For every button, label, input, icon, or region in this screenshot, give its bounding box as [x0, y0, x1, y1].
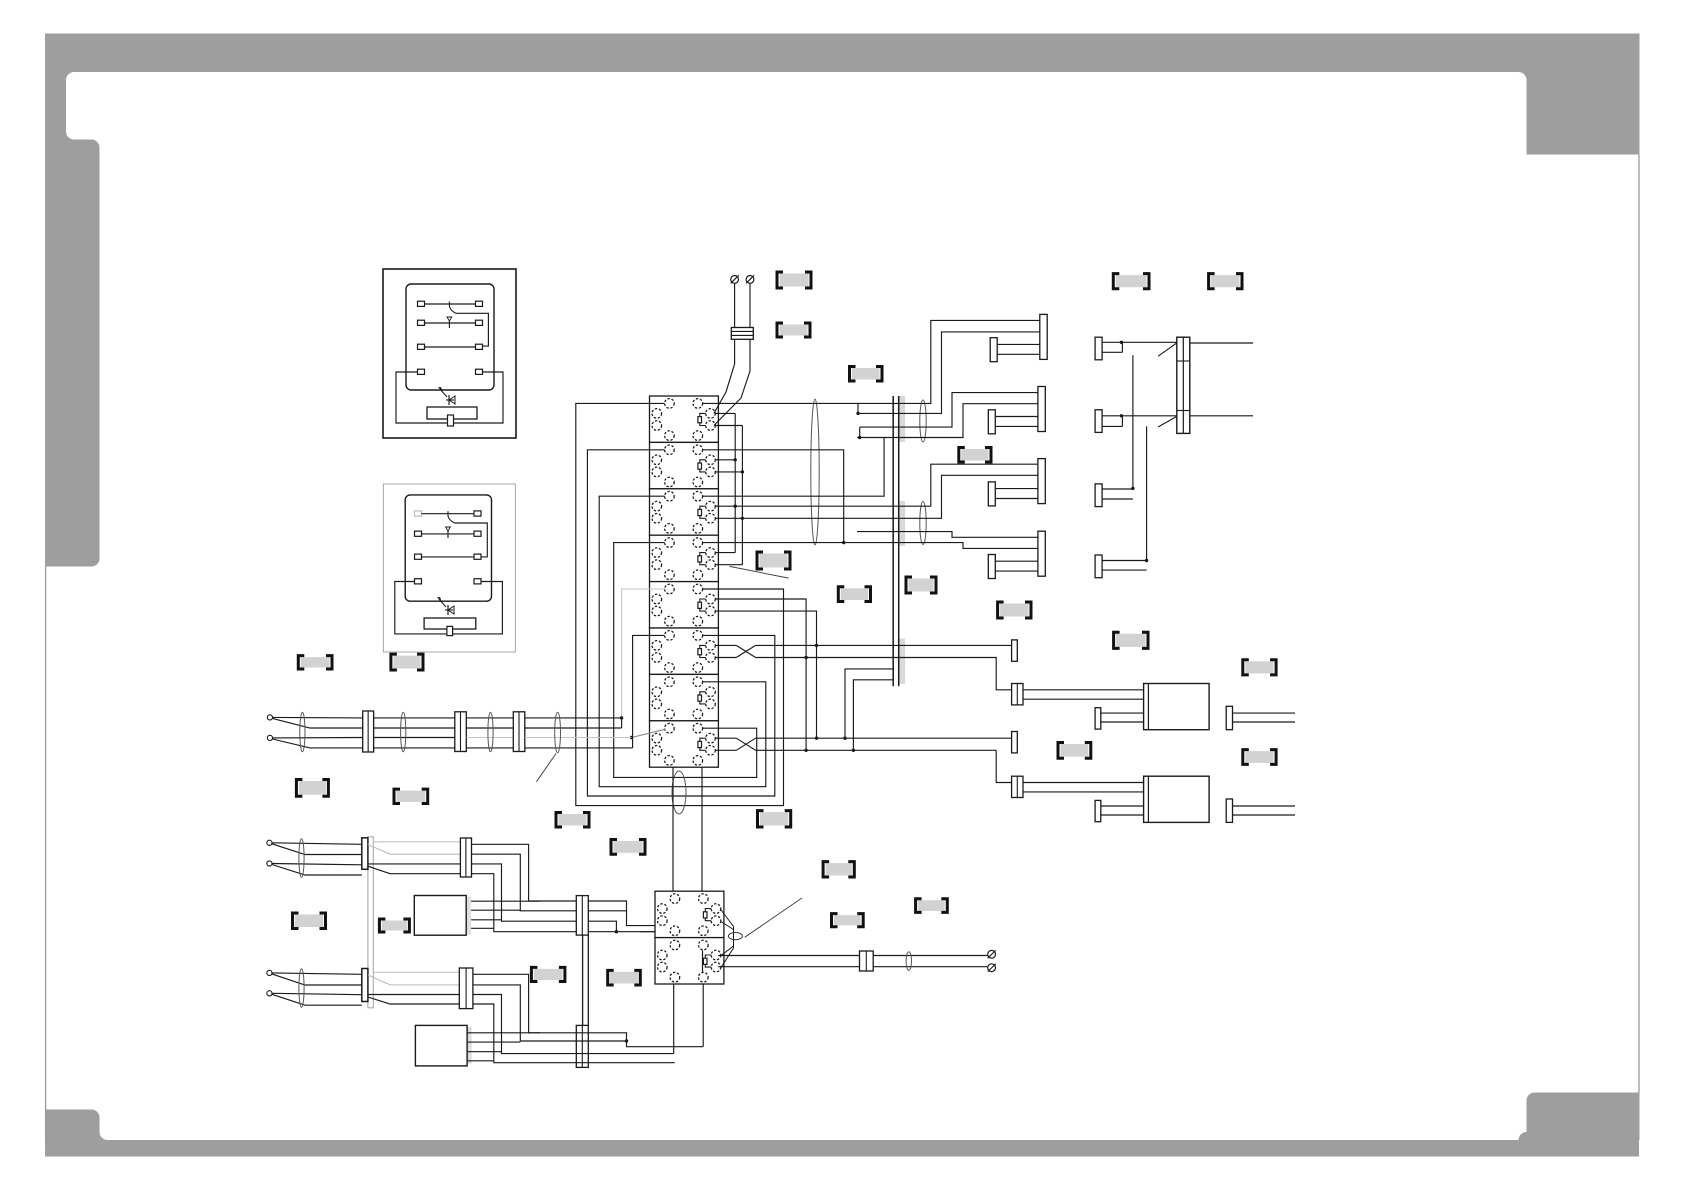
relay K2 contact row 3: [422, 556, 475, 558]
terminal strip TB1 section 2 jumper component: [700, 460, 706, 472]
connector P3 plug: [988, 482, 995, 506]
relay K1 contact pads: [418, 301, 425, 306]
cable BC to phi: [873, 955, 988, 957]
loom ellipse R2: [299, 969, 304, 1008]
relay K1 coil: [427, 407, 477, 419]
wire riser J4: [1146, 426, 1148, 560]
label T7: [909, 579, 934, 592]
wire sec6 X cross: [736, 645, 755, 657]
relay K2 coil loop: [395, 582, 503, 634]
module box B1: [466, 897, 471, 935]
plug PL1: [1144, 684, 1210, 730]
wire motif4 feed B: [899, 543, 1038, 549]
pin J3: [1095, 484, 1102, 507]
loom ellipse right mid: [920, 502, 926, 545]
wire riser 845 to header: [845, 669, 893, 738]
terminal strip TB1 section 8 jumper component: [700, 738, 706, 750]
page frame left bar: [45, 34, 100, 567]
label T14: [1245, 751, 1273, 763]
loom ellipse below strip: [672, 771, 686, 814]
wire hdr link 427-437: [859, 427, 861, 437]
page frame thin left rule: [45, 567, 47, 1141]
wire bus U1 (sec4-left to sec8-right): [614, 543, 757, 778]
relay K2 contact pads: [415, 511, 422, 516]
relay K1 contact row 2: [425, 322, 476, 324]
harness R1 span1: [373, 841, 460, 843]
wire sec5 circA drop: [715, 599, 806, 750]
terminal strip TB1 section 1 body: [650, 396, 719, 442]
TB2 switch slant: [640, 931, 655, 933]
wire right bus A (sec1-4 circles): [734, 413, 736, 552]
wire bus U3 (sec2-left to sec6-right): [587, 450, 774, 796]
loom ellipse bottom: [906, 952, 911, 971]
terminal phi-1: [731, 276, 739, 284]
wire phi-1 to sec1: [714, 339, 735, 413]
connector P2 cable: [995, 416, 1038, 418]
connector bar LB1: [362, 838, 368, 870]
terminal strip TB1 section 2 terminals: [665, 445, 675, 455]
loom ellipse M2: [401, 712, 406, 752]
harness R1 out: [472, 844, 700, 931]
terminal strip TB1 section 4 body: [650, 535, 719, 581]
pin J4: [1095, 555, 1102, 578]
cable G2c out: [1233, 805, 1296, 807]
wire TB2 bottom left drop: [673, 984, 675, 1053]
relay K2 contact row 1: [422, 513, 475, 515]
wire sec8 X cross: [736, 738, 755, 750]
wire bus U4 (sec1-left to sec5-right): [576, 403, 784, 805]
connector P1 plug: [990, 338, 997, 362]
wire riser 853 to header: [853, 680, 893, 751]
terminal strip TB1 section 5 body: [650, 582, 719, 628]
label T4: [961, 449, 988, 461]
TB2 right loop: [721, 910, 734, 927]
label T15: [301, 657, 330, 667]
terminal strip TB1 section 3 body: [650, 489, 719, 535]
loom ellipse right top: [920, 400, 926, 442]
page frame bottom band: [45, 1140, 1639, 1157]
wire motif3 feed A: [899, 464, 1038, 506]
module B1 pin wires: [471, 900, 540, 902]
callout line loom M4: [537, 754, 557, 782]
relay K1 contact row 3: [425, 346, 476, 348]
wire loop branch: [844, 438, 884, 497]
ring terminal R1b: [267, 861, 272, 866]
ring terminal M2: [267, 735, 272, 740]
label T11: [1116, 634, 1145, 647]
wire hdr line 437: [857, 437, 899, 439]
wire sec8 lineA: [715, 737, 736, 739]
cable G2b: [1101, 805, 1144, 807]
label T20: [614, 841, 643, 853]
wire hdr link 403-414: [857, 403, 859, 413]
relay K1 switch lever: [448, 302, 450, 307]
terminal block TB2 section 1 terminals: [670, 894, 680, 904]
inline connector MC1: [367, 713, 374, 753]
harness M wires from rings: [272, 716, 362, 719]
transit bar T1: [576, 896, 588, 936]
pin G2c: [1226, 799, 1232, 822]
cable G1 to plug: [1023, 689, 1144, 691]
wire sec2-sec3 loop: [703, 450, 844, 496]
relay box K1 inner body: [406, 284, 494, 390]
junction gray drop / harness line1: [620, 716, 623, 719]
terminal strip TB1 section 5 jumper component: [700, 599, 706, 611]
cable G1c out: [1233, 712, 1296, 714]
transit bar T2: [576, 1025, 588, 1067]
terminal strip TB1 section 3 terminals: [665, 491, 675, 501]
label T17: [299, 781, 326, 795]
wire motif2 feed B: [899, 404, 1038, 438]
inline connector BC: [860, 951, 874, 971]
inline connector R2C2: [459, 969, 463, 1008]
terminal block TB2 section 2 terminals: [670, 940, 680, 950]
terminal phi-4: [988, 964, 996, 972]
junction right bus B sec3: [741, 517, 744, 520]
ring terminal R2b: [267, 991, 272, 996]
terminal strip TB1 section 5 terminals: [665, 584, 675, 594]
label T1: [780, 274, 809, 287]
terminal phi-3: [988, 950, 996, 958]
terminal phi-2: [746, 276, 754, 284]
junction R2 line2: [625, 1039, 628, 1042]
inline connector MC3: [513, 712, 525, 752]
junction right bus A sec3: [734, 505, 737, 508]
connector P1 receptacle: [1040, 314, 1047, 359]
loom ellipse R1: [299, 839, 304, 878]
wire sec5 circB drop: [715, 611, 816, 738]
ring terminal M1: [267, 715, 272, 720]
cable G1b: [1101, 712, 1144, 714]
terminal strip TB1 section 6 body: [650, 628, 719, 674]
wire harness line2 hook: [621, 718, 623, 728]
wire right bus B (sec1-4 circles): [741, 426, 743, 565]
loom ellipse M3: [488, 712, 493, 752]
wire phi-2 to sec1: [714, 339, 750, 425]
wire TB2 bottom right drop: [702, 984, 704, 1046]
wire J1 stub: [1102, 351, 1122, 353]
callout strip fuse: [730, 566, 789, 578]
label T12: [1245, 661, 1273, 673]
relay K2 switch lever: [447, 511, 449, 516]
relay K1 coil diode: [446, 399, 454, 401]
wire phi-1 drop: [734, 283, 736, 327]
label T6: [841, 588, 868, 600]
junction sec5B-sec8A: [815, 737, 818, 740]
terminal strip TB1 section 4 terminals: [665, 538, 675, 548]
label T2: [780, 325, 808, 336]
module B2 pin wires: [467, 1032, 540, 1034]
connector P4 plug: [988, 555, 995, 579]
page frame bottom-left block: [45, 1110, 100, 1141]
label T18: [397, 791, 426, 802]
terminal strip TB1 section 6 terminals: [665, 631, 675, 641]
wire motif1 feed A: [899, 320, 1040, 403]
label T27: [534, 969, 563, 980]
wire sec8 lineB: [715, 749, 736, 751]
harness R2 wires from rings: [272, 973, 362, 974]
page frame thin right rule: [1638, 155, 1640, 1093]
loom ellipse M4: [555, 712, 561, 752]
ring terminal R2a: [267, 970, 272, 975]
pin J2: [1095, 410, 1102, 433]
relay K2 changeover link: [455, 523, 488, 557]
terminal strip TB1 section 6 jumper component: [700, 645, 706, 657]
wire sec6 lineA: [715, 644, 736, 646]
relay K2 coil: [424, 618, 476, 629]
page frame top band: [45, 34, 1639, 73]
harness M span1: [374, 717, 455, 719]
wire G2 inline feed: [996, 750, 1011, 782]
pin G1c: [1226, 706, 1232, 729]
terminal block TB2 section 1 body: [655, 891, 724, 937]
relay K2 coil terminal: [447, 626, 453, 635]
pin G1: [1012, 640, 1018, 661]
wire J4 pair: [1102, 560, 1147, 562]
connector bar LB2: [362, 969, 368, 1002]
pin G2b: [1095, 800, 1101, 821]
pin G2: [1012, 732, 1018, 753]
relay K2 contact row 2: [422, 533, 475, 535]
wire bus U2 (sec3-left to sec7-right): [599, 496, 766, 787]
callout TB2: [745, 898, 802, 937]
wire sec1 top to header: [703, 402, 899, 404]
relay K1 changeover link: [456, 313, 488, 346]
label T24: [834, 915, 861, 925]
wire J1 to ladder: [1102, 341, 1177, 343]
plug PL2: [1144, 776, 1210, 822]
label T9: [1116, 275, 1147, 287]
module box B2: [467, 1027, 472, 1064]
wire strip to block right: [701, 767, 703, 891]
wire sec5-left gray drop: [622, 589, 665, 718]
wire header to G1 inline: [899, 658, 1012, 690]
wire ladder out top: [1190, 342, 1253, 344]
inline connector G2: [1012, 776, 1023, 797]
terminal block TB2 section 2 jumper component: [705, 955, 711, 967]
wire gray harness line3 diagonal to sec8: [632, 729, 666, 737]
cable G2 to plug: [1023, 782, 1144, 784]
pin J1: [1095, 337, 1102, 360]
label T25: [295, 915, 323, 928]
wire strip to block left: [672, 767, 674, 891]
wire J2 diagonal: [1158, 416, 1177, 427]
TB2 sec2 internal link: [702, 950, 704, 973]
relay K1 coil loop: [396, 372, 503, 423]
junction right bus A sec2: [734, 458, 737, 461]
wire hdr line 427: [860, 426, 899, 428]
label T3: [852, 368, 880, 380]
connector P2 receptacle: [1038, 387, 1045, 432]
page frame bottom-right block: [1527, 1093, 1640, 1141]
terminal strip TB1 section 8 terminals: [665, 723, 675, 733]
wire riser J3: [1132, 355, 1134, 488]
connector P4 receptacle: [1038, 531, 1045, 576]
wire sec3 line 506 to header: [735, 505, 899, 507]
cable TB2 right: [718, 955, 859, 957]
harness R2 out: [473, 974, 703, 1046]
label T10: [1211, 275, 1239, 287]
label T28: [610, 972, 638, 984]
wire circle stubs to right bus: [715, 412, 735, 414]
connector P3 receptacle: [1038, 459, 1045, 504]
wire motif1 feed B: [899, 332, 1040, 414]
wire motif4 feed A: [899, 532, 1038, 538]
terminal strip TB1 section 4 jumper component: [700, 553, 706, 565]
relay box K2 outer case: [383, 484, 515, 652]
label T8: [1000, 604, 1028, 617]
connector P3 cable: [995, 488, 1038, 490]
label T22: [826, 863, 852, 875]
transit bar rails: [582, 935, 584, 1025]
junction sec5B-sec6A: [815, 644, 818, 647]
terminal strip TB1 section 7 body: [650, 674, 719, 720]
wire header to G1 pin: [899, 644, 1012, 646]
terminal strip TB1 section 8 body: [650, 721, 719, 767]
terminal block TB2 section 1 jumper component: [705, 909, 711, 921]
label T5: [760, 554, 788, 568]
harness M span3: [525, 717, 622, 719]
terminal strip TB1 section 7 jumper component: [700, 692, 706, 704]
harness R1 wires from rings: [272, 843, 362, 845]
wire motif2 feed A: [899, 393, 1038, 428]
header H1 shadow blocks: [899, 396, 905, 442]
wire J3 pair: [1102, 488, 1133, 490]
ring terminal R1a: [267, 840, 272, 845]
connector P1 cable: [997, 343, 1040, 345]
inline connector G1: [1012, 684, 1023, 705]
wire J2 stub: [1102, 425, 1122, 427]
label T26: [382, 921, 407, 931]
wire hdr line 414: [858, 412, 899, 414]
junction R1 line3: [615, 930, 618, 933]
wire sec3 line 517 to header: [742, 517, 898, 519]
ladder connector CN-R: [1177, 337, 1190, 433]
label T19: [559, 814, 587, 826]
pin G1b: [1095, 708, 1101, 729]
inline connector R1C2: [460, 839, 463, 876]
terminal strip TB1 section 1 jumper component: [700, 413, 706, 425]
relay box K1 outer case: [383, 269, 516, 438]
header H1 rails: [892, 396, 894, 686]
loom ellipse M1: [300, 712, 305, 752]
long guide bar LB: [368, 837, 373, 1008]
relay K2 coil diode: [445, 609, 453, 611]
inline connector MC2: [455, 712, 467, 752]
junction harness line3: [630, 736, 633, 739]
wire J2 to ladder: [1102, 415, 1177, 417]
wire sec6-left drop to harness line4: [633, 635, 665, 748]
wire motif3 feed B: [899, 475, 1038, 518]
wire J1 diagonal: [1158, 343, 1177, 356]
label T16: [393, 656, 420, 669]
loom ellipse main: [811, 399, 819, 545]
junction sec5A-sec6B: [804, 656, 807, 659]
wire sec6 lineB: [715, 657, 736, 659]
junction sec5A-sec8B: [804, 749, 807, 752]
label T21: [760, 812, 788, 825]
wire ladder out bottom: [1190, 415, 1253, 417]
page frame top-right block: [1527, 34, 1640, 155]
wire line 531 to header: [857, 531, 899, 533]
connector P4 cable: [995, 560, 1038, 562]
connector P2 plug: [988, 410, 995, 434]
relay K1 contact row 1: [425, 303, 476, 305]
terminal strip TB1 section 1 terminals: [665, 399, 675, 409]
terminal strip TB1 section 2 body: [650, 442, 719, 488]
wire sec4 top to header: [703, 542, 899, 544]
harness M span2: [466, 717, 513, 719]
label T23: [918, 900, 945, 911]
label T13: [1061, 744, 1089, 757]
inline connector CN-top: [731, 328, 753, 340]
terminal block TB2 section 2 body: [655, 938, 724, 984]
terminal strip TB1 section 7 terminals: [665, 677, 675, 687]
relay box K2 inner body: [405, 495, 491, 601]
junction right bus B sec2: [741, 470, 744, 473]
wire phi-2 drop: [749, 283, 751, 327]
relay K1 coil terminal: [448, 415, 454, 426]
wire loop drop: [843, 496, 845, 542]
terminal strip TB1 section 3 jumper component: [700, 506, 706, 518]
harness R2 span1: [373, 971, 459, 973]
